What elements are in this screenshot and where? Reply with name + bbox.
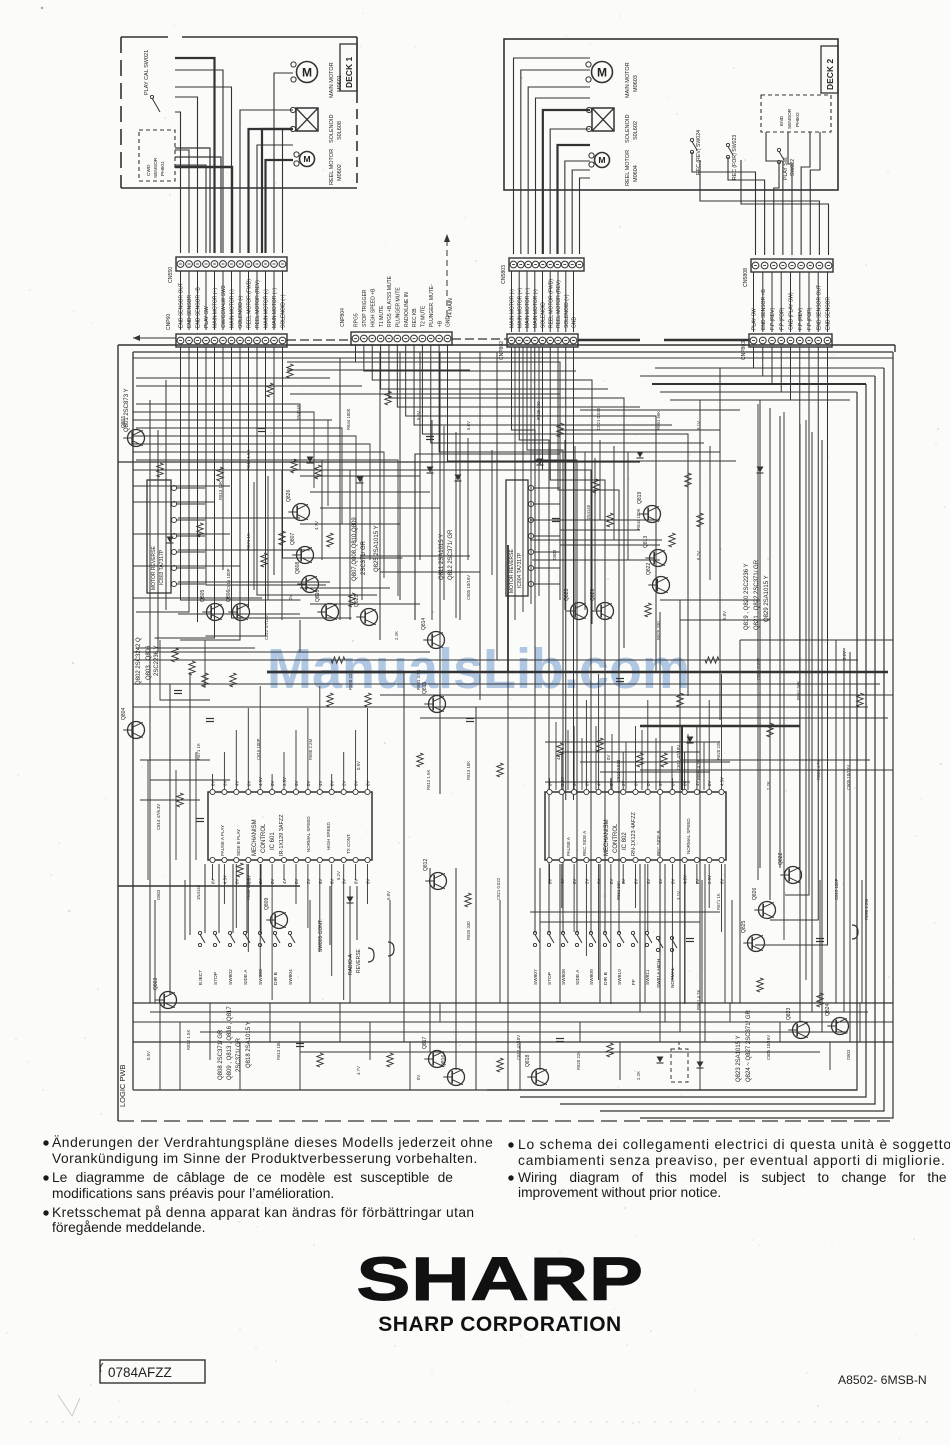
wire horizontal run bbox=[660, 599, 760, 601]
wire q802 area b bbox=[204, 640, 206, 688]
resistor bbox=[757, 978, 763, 992]
wire CNP804 pin 3 branch bbox=[372, 345, 592, 624]
svg-text:FF: FF bbox=[631, 979, 637, 985]
svg-text:RADIO/LINE IN: RADIO/LINE IN bbox=[404, 292, 410, 327]
resistor bbox=[645, 603, 651, 617]
wire vertical run bbox=[703, 742, 705, 790]
wire deck1 pin 8 bbox=[240, 110, 293, 253]
wire IC802 top pin 12 bbox=[684, 752, 686, 790]
wire IC601 top pin 10 bbox=[319, 686, 321, 790]
svg-text:C814 47/6.3V: C814 47/6.3V bbox=[156, 804, 161, 830]
bus wire CNP802 to CNP803 thick bbox=[578, 339, 640, 342]
svg-text:2.5V: 2.5V bbox=[246, 875, 251, 884]
capacitor bbox=[616, 678, 624, 680]
svg-text:Q810: Q810 bbox=[315, 590, 321, 602]
wire CNP803 pin 4 branch bbox=[780, 347, 782, 392]
wire IC802 top pin 4 bbox=[585, 700, 587, 790]
wire cwd sensor feed 2 bbox=[175, 148, 210, 253]
wire horizontal bus bbox=[200, 1031, 848, 1033]
wire vertical run bbox=[379, 352, 381, 640]
resistor bbox=[557, 743, 563, 757]
svg-text:Q809 , Q813 , Q816 , Q817: Q809 , Q813 , Q816 , Q817 bbox=[227, 1006, 233, 1080]
svg-text:4V: 4V bbox=[695, 781, 700, 786]
svg-text:0V: 0V bbox=[246, 781, 251, 786]
svg-text:RPG5 +B,A7SS MUTE: RPG5 +B,A7SS MUTE bbox=[387, 275, 393, 327]
wire vertical run bbox=[339, 358, 341, 620]
resistor bbox=[417, 753, 423, 767]
wire vertical run bbox=[349, 470, 351, 620]
IC803 pins bbox=[171, 485, 205, 586]
wire vertical run bbox=[309, 900, 311, 1003]
wire CNP802 pin 6 branch bbox=[550, 347, 605, 933]
svg-text:C815 100P: C815 100P bbox=[226, 568, 231, 590]
IC601 mechanism control box bbox=[208, 792, 372, 860]
svg-text:+B: +B bbox=[437, 320, 443, 327]
outer frame right bbox=[894, 345, 896, 352]
resistor bbox=[387, 1053, 393, 1067]
svg-text:Q822: Q822 bbox=[778, 853, 784, 865]
svg-text:R820 22K: R820 22K bbox=[576, 1051, 581, 1070]
svg-text:0V: 0V bbox=[572, 879, 577, 884]
wire vertical run bbox=[522, 347, 524, 612]
svg-text:F.P (REV): F.P (REV) bbox=[770, 308, 776, 330]
svg-text:CN550: CN550 bbox=[168, 267, 174, 283]
wire vertical run bbox=[491, 450, 493, 575]
svg-text:T1 MUTE: T1 MUTE bbox=[379, 305, 385, 327]
wire CNP60 pin 10 branch bbox=[257, 347, 377, 595]
svg-text:REC (REV) SW024: REC (REV) SW024 bbox=[696, 130, 702, 175]
wire horizontal bus bbox=[118, 461, 640, 463]
resistor bbox=[497, 1058, 503, 1072]
capacitor bbox=[466, 718, 474, 720]
svg-text:DIR B: DIR B bbox=[603, 972, 609, 985]
resistor bbox=[661, 753, 667, 767]
wire horizontal run bbox=[150, 779, 230, 781]
board outline LOGIC PWB left bbox=[132, 352, 134, 1090]
wire vertical run bbox=[779, 416, 781, 868]
wire vertical run bbox=[724, 864, 726, 1003]
end sensor PH602 box bbox=[761, 95, 831, 132]
resistor bbox=[607, 1043, 613, 1057]
wire IC802 bottom pin 8 bbox=[635, 864, 637, 908]
wire vertical run bbox=[184, 880, 186, 940]
wire horizontal bus bbox=[380, 694, 893, 696]
resistor bbox=[317, 1053, 323, 1067]
capacitor bbox=[552, 518, 560, 520]
svg-text:6V: 6V bbox=[720, 879, 725, 884]
svg-text:R813 10K: R813 10K bbox=[276, 1041, 281, 1060]
transistor Q810 bbox=[315, 590, 339, 621]
svg-text:4.5V: 4.5V bbox=[683, 875, 688, 884]
svg-text:6.2V: 6.2V bbox=[336, 871, 341, 880]
wire CNP803 pin 6 branch bbox=[799, 347, 801, 870]
svg-text:A8502- 6MSB-N: A8502- 6MSB-N bbox=[838, 1373, 927, 1387]
wire horizontal bus bbox=[420, 717, 888, 719]
resistor bbox=[327, 533, 333, 547]
wire q802 area c bbox=[136, 647, 255, 649]
wire CN5803 pin 5 to CNP802 bbox=[542, 271, 544, 332]
resistor R803 bbox=[189, 661, 195, 675]
transistor Q815 bbox=[422, 682, 446, 713]
connector CNP60 strip bbox=[176, 334, 287, 347]
svg-text:3V: 3V bbox=[658, 781, 663, 786]
wire staircase upper-left bbox=[136, 444, 370, 560]
wire horizontal bus bbox=[287, 361, 430, 363]
play switch SW022 bbox=[777, 148, 780, 151]
svg-text:SW81A HIGH: SW81A HIGH bbox=[656, 958, 662, 988]
wire vertical run bbox=[218, 864, 220, 933]
wire staircase upper-left bbox=[136, 404, 300, 470]
svg-text:MAIN MOTOR (+): MAIN MOTOR (+) bbox=[213, 288, 219, 328]
wire vertical run bbox=[757, 404, 759, 880]
svg-text:6V: 6V bbox=[572, 781, 577, 786]
svg-text:SW803: SW803 bbox=[258, 969, 264, 985]
wire deck2 pin 5 bbox=[543, 110, 590, 254]
wire horizontal run bbox=[560, 544, 660, 546]
svg-text:NORMAL SPEED: NORMAL SPEED bbox=[686, 818, 691, 854]
wire horizontal bus bbox=[133, 1021, 893, 1023]
cwd sensor PH601 box bbox=[139, 130, 175, 181]
svg-text:C815 100P: C815 100P bbox=[256, 738, 261, 760]
wire CN550 pin 9 to CNP60 bbox=[248, 271, 250, 330]
wire vertical run bbox=[819, 880, 821, 1003]
svg-text:HIGH SPEED: HIGH SPEED bbox=[326, 821, 331, 850]
svg-text:2V: 2V bbox=[342, 781, 347, 786]
part number box bbox=[100, 1360, 205, 1383]
wire vertical run bbox=[613, 446, 615, 540]
wire IC601 bottom pin 10 bbox=[319, 864, 321, 952]
wire vertical run bbox=[639, 864, 641, 1012]
wire horizontal bus bbox=[740, 639, 893, 641]
svg-text:R890 2.2M: R890 2.2M bbox=[864, 899, 869, 920]
wire deck1 pin 6 bbox=[175, 70, 223, 253]
wire CN5808 pin 8 to CNP803 bbox=[817, 272, 819, 332]
svg-text:R825 330: R825 330 bbox=[656, 621, 661, 640]
wire vertical run bbox=[479, 352, 481, 700]
wire IC802 bottom pin 3 bbox=[573, 864, 575, 932]
transistor Q808 bbox=[295, 562, 319, 593]
wire vertical run bbox=[599, 440, 601, 520]
svg-text:IC 601: IC 601 bbox=[270, 832, 276, 850]
wire vertical run bbox=[799, 424, 801, 1022]
wire horizontal bus bbox=[133, 443, 312, 445]
wire staircase upper-left bbox=[136, 412, 314, 488]
wire deck2 pin 2 bbox=[521, 70, 590, 254]
resistor bbox=[607, 513, 613, 527]
svg-text:6V: 6V bbox=[597, 879, 602, 884]
wire IC601 bottom pin 7 bbox=[283, 864, 285, 880]
connector CNP802 strip bbox=[507, 334, 578, 347]
IC804 pins bbox=[528, 485, 560, 586]
svg-text:R812 1.5K: R812 1.5K bbox=[426, 770, 431, 790]
svg-text:SW022: SW022 bbox=[790, 159, 796, 176]
svg-text:Q807: Q807 bbox=[290, 533, 296, 545]
svg-text:END SENSOR OUT: END SENSOR OUT bbox=[816, 285, 822, 330]
wire horizontal bus bbox=[133, 1041, 893, 1043]
wire horizontal bus bbox=[640, 725, 800, 727]
deck 1 enclosure top edge bbox=[121, 36, 168, 38]
transistor Q823 bbox=[564, 589, 588, 620]
svg-text:2.5V: 2.5V bbox=[282, 777, 287, 786]
svg-text:M0604: M0604 bbox=[633, 165, 639, 182]
wire vertical run bbox=[701, 880, 703, 1003]
hook contact c bbox=[852, 925, 858, 939]
wire IC802 top pin 5 bbox=[598, 674, 600, 790]
resistor bbox=[327, 693, 333, 707]
wire horizontal run bbox=[560, 529, 640, 531]
resistor bbox=[279, 531, 285, 545]
wire deck2 pin 10 bbox=[580, 178, 591, 254]
svg-text:Q801 2SC873 Y: Q801 2SC873 Y bbox=[124, 388, 130, 432]
wire horizontal bus bbox=[290, 393, 560, 395]
wire horizontal bus bbox=[530, 519, 660, 521]
resistor bbox=[291, 459, 297, 473]
svg-text:C812 47/10V: C812 47/10V bbox=[264, 615, 269, 640]
IC601 pin circles bbox=[210, 789, 370, 862]
svg-text:MECHANISM: MECHANISM bbox=[252, 819, 258, 856]
diode bbox=[357, 477, 364, 483]
transistor Q813 bbox=[643, 536, 667, 567]
transistor Q818 bbox=[525, 1055, 549, 1086]
wire vertical run bbox=[555, 722, 557, 790]
wire vertical run bbox=[429, 868, 431, 1052]
wire CN550 pin 3 to CNP60 bbox=[197, 271, 199, 330]
footer notes right column bbox=[508, 1137, 950, 1200]
wire CN5803 pin 6 to CNP802 bbox=[549, 271, 551, 332]
wire IC601 bottom pin 12 bbox=[343, 864, 345, 1000]
svg-text:PLAY CAL SW021: PLAY CAL SW021 bbox=[144, 50, 150, 95]
svg-text:MAIN MOTOR (+): MAIN MOTOR (+) bbox=[272, 288, 278, 328]
wire vertical run bbox=[175, 770, 177, 860]
capacitor bbox=[258, 428, 266, 430]
svg-text:0V: 0V bbox=[270, 879, 275, 884]
resistor bbox=[267, 383, 273, 397]
svg-text:R861 56K: R861 56K bbox=[656, 411, 661, 430]
resistor bbox=[315, 465, 321, 479]
wire vertical run bbox=[574, 446, 576, 610]
svg-text:2.2K: 2.2K bbox=[766, 781, 771, 790]
wire horizontal run bbox=[300, 523, 400, 525]
svg-text:4.5V: 4.5V bbox=[720, 777, 725, 786]
svg-text:MECHANISM: MECHANISM bbox=[604, 819, 610, 856]
svg-text:6V: 6V bbox=[294, 781, 299, 786]
wire horizontal bus bbox=[133, 451, 342, 453]
svg-text:Q813: Q813 bbox=[643, 536, 649, 548]
svg-text:4V: 4V bbox=[658, 879, 663, 884]
svg-text:Q807,Q808,Q810,Q809: Q807,Q808,Q810,Q809 bbox=[352, 517, 358, 581]
transistor Q812 bbox=[423, 859, 447, 890]
transistor Q823 bbox=[786, 1008, 810, 1039]
resistor bbox=[287, 364, 293, 378]
svg-text:2V: 2V bbox=[584, 879, 589, 884]
svg-text:SW810: SW810 bbox=[617, 969, 623, 985]
svg-text:CONTROL: CONTROL bbox=[261, 823, 267, 853]
svg-text:R871 1K: R871 1K bbox=[196, 743, 201, 760]
wire CNP804 pin 4 branch bbox=[381, 345, 608, 389]
svg-text:SIDE A: SIDE A bbox=[243, 969, 249, 985]
deck 2 enclosure bbox=[504, 39, 838, 190]
svg-text:6V: 6V bbox=[222, 781, 227, 786]
svg-text:SW807: SW807 bbox=[533, 969, 539, 985]
wire IC601 top pin 9 bbox=[307, 708, 309, 790]
resistor bbox=[230, 673, 236, 687]
svg-text:SENSOR: SENSOR bbox=[787, 108, 793, 129]
svg-text:Q825: Q825 bbox=[741, 921, 747, 933]
svg-text:F.P (FOR): F.P (FOR) bbox=[779, 307, 785, 330]
svg-text:M: M bbox=[303, 154, 310, 164]
wire horizontal bus bbox=[136, 377, 330, 379]
wire CNP804 pin 9 branch bbox=[422, 345, 688, 696]
diode bbox=[687, 737, 694, 743]
wire horizontal run bbox=[680, 619, 770, 621]
wire horizontal bus bbox=[300, 1051, 820, 1053]
wire deck1 pin 12 bbox=[274, 73, 293, 253]
svg-text:5.8V: 5.8V bbox=[386, 891, 391, 900]
wire horizontal bus bbox=[133, 485, 230, 487]
wire IC802 top pin 9 bbox=[647, 700, 649, 790]
transistor Q819 bbox=[637, 492, 661, 523]
svg-text:R801 4.7K: R801 4.7K bbox=[696, 990, 701, 1010]
wire IC802 top pin 3 bbox=[573, 726, 575, 790]
svg-text:0V: 0V bbox=[354, 879, 359, 884]
svg-text:REC (FOR) SW023: REC (FOR) SW023 bbox=[732, 135, 738, 180]
wire vertical run bbox=[459, 352, 461, 620]
svg-text:T4 MAIN: T4 MAIN bbox=[448, 298, 454, 318]
wire CNP60 pin 5 branch bbox=[155, 347, 215, 638]
wire IC802 top pin 14 bbox=[708, 700, 710, 790]
svg-text:Q818: Q818 bbox=[525, 1055, 531, 1067]
transistor Q817 bbox=[422, 1037, 446, 1068]
svg-text:0V: 0V bbox=[609, 781, 614, 786]
diode bbox=[657, 1057, 664, 1063]
wire IC601 top pin 2 bbox=[223, 752, 225, 790]
svg-text:M0602: M0602 bbox=[337, 164, 343, 181]
svg-text:T2 MUTE: T2 MUTE bbox=[421, 305, 427, 327]
part number stray mark bbox=[100, 1363, 103, 1372]
wire horizontal run bbox=[600, 771, 710, 773]
svg-text:C821 0.022: C821 0.022 bbox=[756, 657, 761, 680]
svg-text:Q823: Q823 bbox=[786, 1008, 792, 1020]
wire vertical run bbox=[704, 864, 706, 1042]
resistor bbox=[705, 657, 719, 663]
wire deck2 pin 9 bbox=[572, 170, 590, 254]
wire horizontal bus bbox=[640, 769, 893, 771]
capacitor bbox=[686, 938, 694, 940]
wire vertical run bbox=[644, 864, 646, 1003]
wire right bus nested corner 5 bbox=[487, 392, 857, 1090]
wire CNP60 pin 4 branch bbox=[206, 347, 326, 585]
svg-text:0V: 0V bbox=[584, 781, 589, 786]
svg-text:R813 10K: R813 10K bbox=[466, 761, 471, 780]
wire IC802 bottom pin 12 bbox=[684, 864, 686, 1004]
transistor Q816 bbox=[441, 1055, 465, 1086]
svg-text:SENSOR: SENSOR bbox=[153, 157, 159, 178]
svg-text:PAUSE A PLAY: PAUSE A PLAY bbox=[220, 825, 225, 856]
svg-text:C821 0.022: C821 0.022 bbox=[616, 759, 621, 782]
svg-text:Änderungen der Verdrahtungsplä: Änderungen der Verdrahtungspläne dieses … bbox=[52, 1134, 493, 1150]
wire horizontal bus bbox=[178, 549, 310, 551]
svg-text:SW805 CONT.: SW805 CONT. bbox=[318, 919, 324, 952]
diode bbox=[757, 467, 764, 473]
wire CNP60 pin 2 branch bbox=[136, 347, 189, 612]
wire CNP802 pin 4 branch bbox=[535, 347, 577, 933]
diode bbox=[167, 537, 174, 543]
svg-text:4.5V: 4.5V bbox=[258, 777, 263, 786]
deck 1 enclosure left edge bbox=[120, 37, 122, 188]
wire IC802 top pin 15 bbox=[721, 674, 723, 790]
svg-text:STOP: STOP bbox=[547, 972, 553, 985]
diode bbox=[307, 457, 314, 463]
transistor Q814 bbox=[421, 618, 445, 649]
wire horizontal bus bbox=[133, 357, 893, 359]
wire CN5808 pin 9 to CNP803 bbox=[827, 272, 829, 332]
wire vertical run bbox=[157, 430, 159, 652]
wire IC802 bottom pin 15 bbox=[721, 864, 723, 932]
wire vertical run bbox=[584, 452, 586, 610]
svg-text:C815 100P: C815 100P bbox=[834, 878, 839, 900]
svg-text:R820 22K: R820 22K bbox=[348, 671, 353, 690]
svg-text:6V: 6V bbox=[318, 879, 323, 884]
svg-text:Q814: Q814 bbox=[421, 618, 427, 630]
transistor Q824 bbox=[825, 1004, 849, 1035]
svg-text:REC KB: REC KB bbox=[412, 308, 418, 327]
outer frame top bbox=[118, 344, 895, 346]
wire CNP802 pin 5 branch bbox=[543, 347, 592, 933]
wire vertical run bbox=[619, 1042, 621, 1080]
wire deck2 pin 4 bbox=[536, 98, 591, 254]
wire IC601 top pin 14 bbox=[367, 708, 369, 790]
wire vertical run bbox=[467, 438, 469, 560]
wire vertical run bbox=[329, 886, 331, 945]
svg-text:R871 1K: R871 1K bbox=[716, 893, 721, 910]
footer notes left column bbox=[43, 1134, 493, 1235]
wire CNP803 pin 2 branch bbox=[762, 347, 764, 376]
wire IC802 bottom pin 5 bbox=[598, 864, 600, 980]
bus wire CNP60 to CNP804 bbox=[287, 339, 351, 341]
svg-text:0V: 0V bbox=[695, 879, 700, 884]
svg-text:SW804: SW804 bbox=[288, 969, 294, 985]
svg-text:0V: 0V bbox=[330, 879, 335, 884]
wire IC601 bottom pin 5 bbox=[259, 864, 261, 976]
resistor bbox=[365, 693, 371, 707]
svg-text:6V: 6V bbox=[683, 781, 688, 786]
svg-text:4V: 4V bbox=[234, 781, 239, 786]
wire vertical run bbox=[389, 900, 391, 1003]
wire vertical run bbox=[659, 612, 661, 1022]
wire CN550 pin 2 to CNP60 bbox=[188, 271, 190, 330]
transistor Q829 bbox=[354, 595, 378, 626]
svg-text:1N4148: 1N4148 bbox=[196, 884, 201, 900]
svg-text:SW802: SW802 bbox=[228, 969, 234, 985]
svg-text:R844 100K: R844 100K bbox=[636, 508, 641, 530]
wire deck2 switch pin 5 bbox=[788, 132, 792, 255]
svg-text:STOP TRIGGER: STOP TRIGGER bbox=[362, 289, 368, 327]
svg-text:IC 802: IC 802 bbox=[622, 832, 628, 850]
wire horizontal bus bbox=[640, 375, 875, 377]
wire vertical run bbox=[169, 684, 171, 995]
wire CN550 pin 10 to CNP60 bbox=[256, 271, 258, 330]
wire vertical run bbox=[821, 440, 823, 1032]
svg-text:END SENSOR: END SENSOR bbox=[826, 297, 832, 330]
wire vertical run bbox=[356, 886, 358, 940]
svg-text:MAIN MOTOR: MAIN MOTOR bbox=[625, 62, 631, 98]
wire vertical run bbox=[246, 864, 248, 933]
wire CN550 pin 13 to CNP60 bbox=[282, 271, 284, 330]
outer frame bottom dashed bbox=[118, 1120, 890, 1122]
svg-text:Q823: Q823 bbox=[564, 589, 570, 601]
wire vertical run bbox=[455, 868, 457, 1070]
wire horizontal run bbox=[320, 507, 440, 509]
